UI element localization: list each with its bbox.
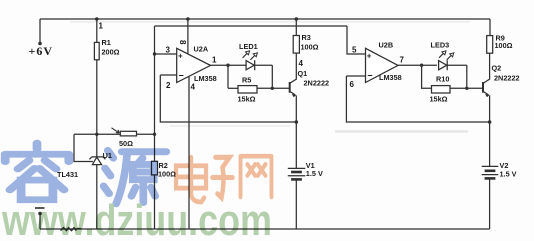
wire U2A output (211, 64, 247, 66)
watermark char rong (5, 143, 69, 200)
svg-text:R5: R5 (242, 76, 251, 85)
svg-text:100Ω: 100Ω (495, 41, 513, 50)
watermark layer (1, 143, 272, 241)
svg-text:4: 4 (299, 59, 304, 68)
resistor R9 box (487, 36, 493, 54)
node output junction dot (226, 63, 229, 66)
svg-text:+6V: +6V (29, 44, 54, 58)
resistor R5 box (238, 86, 257, 93)
svg-text:LM358: LM358 (194, 74, 217, 83)
wire 50ohm horizontal (74, 133, 155, 135)
wire R3 top lead (295, 19, 297, 36)
transistor Q1 collector (290, 53, 296, 83)
svg-text:LED3: LED3 (431, 41, 450, 50)
ground terminal bar (35, 207, 45, 209)
wire bottom ground rail (40, 228, 490, 230)
wire V1 bottom lead (295, 181, 297, 230)
svg-text:−: − (367, 71, 372, 81)
node junction dot R1/50ohm/TL431 (95, 133, 98, 136)
wire V2 bottom lead (489, 180, 491, 230)
wire vertical reference x154.5 (154, 26, 156, 134)
node R5 right junction dot (271, 87, 274, 90)
svg-text:1: 1 (212, 56, 217, 65)
wire U2B output (398, 64, 437, 66)
svg-text:+: + (178, 52, 183, 61)
node junction dot 50ohm/R2 (153, 133, 156, 136)
wire U2B pin6 input (346, 75, 365, 77)
svg-text:2: 2 (166, 81, 171, 90)
svg-text:3: 3 (166, 46, 171, 55)
svg-text:1: 1 (99, 22, 104, 31)
trimmer arrow 50ohm (112, 128, 120, 133)
LED1 arrow 1 shaft (243, 53, 248, 58)
op-amp U2B triangle (366, 48, 399, 82)
node feedback dot Q2 emitter (488, 120, 492, 124)
LED3 arrow 2 shaft (447, 55, 452, 60)
battery V1 plate long top (288, 167, 306, 169)
svg-text:LED1: LED1 (239, 42, 258, 51)
svg-text:5: 5 (352, 46, 357, 55)
battery V2 plate short 1 (485, 170, 496, 173)
wire Q1 emitter down (295, 95, 297, 168)
wire R5 left lead (228, 87, 238, 89)
node output junction dot U2B (420, 63, 423, 66)
wire U2A feedback from Q1 emitter (160, 75, 296, 122)
wire LED3 cathode (447, 64, 467, 66)
svg-text:100Ω: 100Ω (301, 43, 319, 52)
resistor 50ohm trimmer box (120, 131, 136, 136)
LED3 diode triangle (439, 61, 447, 70)
wire R9 top lead from rail corner (489, 19, 491, 36)
LED3 arrow 1 head (442, 51, 446, 55)
svg-text:8: 8 (178, 40, 187, 45)
transistor Q2 base bar (482, 82, 484, 93)
wire U2B feedback from Q2 emitter (346, 76, 489, 122)
svg-text:U2A: U2A (194, 45, 209, 54)
svg-text:6: 6 (350, 80, 355, 89)
svg-text:100Ω: 100Ω (158, 170, 176, 179)
wire U2A pin3 input (155, 53, 177, 55)
resistor R1 box (94, 42, 99, 59)
resistor R3 box (293, 36, 299, 54)
battery V2 plate long top (482, 165, 499, 167)
wire TL431 anode to ground (96, 165, 98, 229)
node pin8 rail dot (186, 17, 190, 21)
svg-text:Q1: Q1 (298, 69, 308, 78)
wire U2B pin5 input (347, 26, 366, 54)
battery V2 plate short 2 (485, 177, 496, 180)
svg-text:2N2222: 2N2222 (494, 74, 520, 83)
node R3 rail dot (295, 17, 299, 21)
watermark char zi (213, 157, 233, 197)
wire R5 left branch vertical (227, 65, 229, 88)
wire R2 bottom lead (154, 175, 156, 229)
watermark char yuan (104, 150, 167, 203)
TL431 U1 cathode bar (90, 157, 106, 159)
svg-text:www.dziuu.com: www.dziuu.com (1, 196, 272, 241)
wire Q2 emitter down (489, 95, 491, 166)
node +6V terminal dot (38, 42, 42, 46)
svg-text:Q2: Q2 (492, 64, 502, 73)
svg-text:4: 4 (191, 83, 196, 92)
wire ghost artifact feedback right (335, 130, 468, 133)
LED1 diode triangle (246, 61, 254, 70)
watermark char wang (241, 156, 272, 197)
wire U2A pin2 input (160, 74, 176, 76)
wire R1 bottom lead down to TL431 (96, 60, 98, 157)
wire TL431 ref loop rectangle (74, 134, 93, 161)
LED1 arrow 2 shaft (250, 55, 255, 60)
LED3 cathode bar (446, 60, 448, 70)
node R10 right junction dot (465, 87, 468, 90)
svg-text:LM358: LM358 (379, 73, 402, 82)
svg-text:−: − (179, 71, 184, 81)
LED3 arrow 1 shaft (439, 53, 444, 58)
wire ground terminal lead (39, 214, 41, 230)
wire R5 right lead to Q1 base (257, 87, 289, 89)
op-amp U2A triangle (177, 48, 211, 82)
wire ghost artifact top rail (70, 21, 470, 23)
wire LED1 cathode (255, 64, 273, 66)
node feedback dot Q1 emitter (295, 120, 299, 124)
svg-text:15kΩ: 15kΩ (238, 95, 256, 104)
wire LED3/R10 right vertical (466, 65, 468, 88)
svg-text:2N2222: 2N2222 (304, 79, 330, 88)
ground terminal dot (38, 212, 42, 216)
battery V1 plate long bottom (288, 175, 306, 177)
transistor Q1 emitter (290, 92, 295, 95)
svg-text:R1: R1 (102, 38, 111, 47)
node 1 junction dot (95, 17, 99, 21)
transistor Q2 emitter (484, 92, 489, 95)
transistor Q1 emitter arrowhead (292, 94, 296, 97)
wire +6V terminal lead (39, 19, 41, 43)
node junction dot pin3 (153, 52, 156, 55)
resistor R2 box (152, 161, 158, 175)
svg-text:R10: R10 (436, 75, 449, 84)
squiggle artifact on ground rail (61, 228, 82, 231)
resistor R10 box (432, 86, 451, 93)
wire R10 right lead to Q2 base (450, 87, 482, 89)
TL431 U1 triangle (92, 157, 101, 164)
LED1 cathode bar (254, 60, 256, 70)
wire R2 top lead (154, 134, 156, 161)
battery V2 plate long bottom (482, 174, 499, 176)
svg-text:+: + (367, 52, 372, 61)
svg-text:200Ω: 200Ω (102, 48, 120, 57)
transistor Q2 emitter arrowhead (486, 94, 490, 97)
LED1 arrow 1 head (246, 51, 250, 55)
svg-text:1.5 V: 1.5 V (306, 169, 323, 178)
transistor Q2 collector (484, 53, 490, 83)
wire R5/LED1 right vertical (271, 65, 273, 88)
wire U2A pin8 supply (187, 19, 189, 54)
svg-text:U2B: U2B (379, 41, 394, 50)
wire U2A pin4 ground (188, 77, 190, 229)
battery V1 plate short 2 (291, 178, 302, 181)
svg-text:15kΩ: 15kΩ (430, 95, 448, 104)
wire ghost artifact feedback left (170, 125, 290, 127)
svg-text:R3: R3 (302, 33, 311, 42)
transistor Q1 base bar (289, 82, 291, 93)
wire R10 left branch (422, 65, 432, 88)
svg-text:50Ω: 50Ω (119, 139, 133, 148)
wire top +6V rail (40, 18, 490, 20)
LED3 arrow 2 head (450, 53, 454, 57)
wire reference distribution (y26) (155, 25, 348, 27)
watermark char dian (176, 157, 206, 202)
svg-text:1.5 V: 1.5 V (500, 170, 517, 179)
LED1 arrow 2 head (253, 53, 257, 57)
svg-text:7: 7 (400, 56, 405, 65)
wire R1 top lead (96, 19, 98, 42)
battery V1 plate short 1 (291, 171, 302, 174)
svg-text:TL431: TL431 (57, 170, 78, 179)
